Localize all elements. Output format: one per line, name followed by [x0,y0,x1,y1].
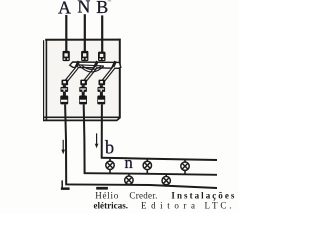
svg-text:A: A [58,0,71,18]
lamp L4 [125,174,133,186]
lamp L2 [143,159,151,174]
current arrow on circuit b [95,133,99,148]
blade terminal 2 [80,80,87,86]
svg-text:LTC.: LTC. [205,201,232,211]
switch blade clip 1 [75,61,79,69]
wire circuit n vertical [83,105,86,174]
svg-text:n: n [125,153,133,172]
switch S1 crossbar [70,62,121,68]
svg-text:B: B [96,0,108,17]
switch handle bowl [79,65,104,72]
panel enclosure fill [47,40,120,117]
fuse G1 cartridge [60,85,68,104]
wire neutral N drop [84,14,86,51]
wire circuit a vertical [65,105,66,185]
svg-text:b: b [105,139,114,159]
current arrow on circuit a [61,140,65,154]
panel outer left edge [43,40,45,121]
fuse F1 top [63,51,70,61]
panel outer bottom edge [43,117,120,120]
svg-text:Creder.: Creder. [129,190,157,200]
fuse G2 cartridge [79,85,87,104]
lamp L3 [181,160,189,175]
svg-text:Instalações: Instalações [171,191,234,201]
switch blade 3 [102,67,114,83]
spur dash below bus a [96,187,108,190]
switch blade 1 [65,67,78,83]
wire phase B drop [101,15,103,52]
caption line 2 [94,201,232,211]
lamp L1 [106,159,114,174]
bus n (neutral) [84,173,217,175]
caption line 1 [95,190,235,200]
lamp L5 [162,174,170,187]
svg-text:elétricas.: elétricas. [94,201,129,211]
bus b (phase b feeder) [101,158,217,160]
panel right edge [119,39,121,118]
svg-text:Hélio: Hélio [95,190,119,200]
bus a (phase a feeder) [65,184,217,188]
fuse G3 cartridge [97,85,105,104]
service entrance L bracket [61,180,70,190]
blade terminal 3 [99,80,106,86]
panel inner bottom edge [43,116,120,118]
wire circuit b vertical [101,105,103,158]
blade terminal 1 [62,80,69,86]
switch blade clip 3 [112,61,116,69]
panel top edge [45,39,120,41]
switch blade 2 [84,67,96,83]
wire phase A drop [65,15,67,52]
panel inner left edge [45,40,47,120]
switch blade clip 2 [94,61,98,69]
fuse F2 top [81,51,88,61]
fuse F3 top [98,52,106,62]
svg-text:N: N [77,0,90,17]
svg-text:Editora: Editora [141,201,195,211]
speck above B [108,0,111,1]
